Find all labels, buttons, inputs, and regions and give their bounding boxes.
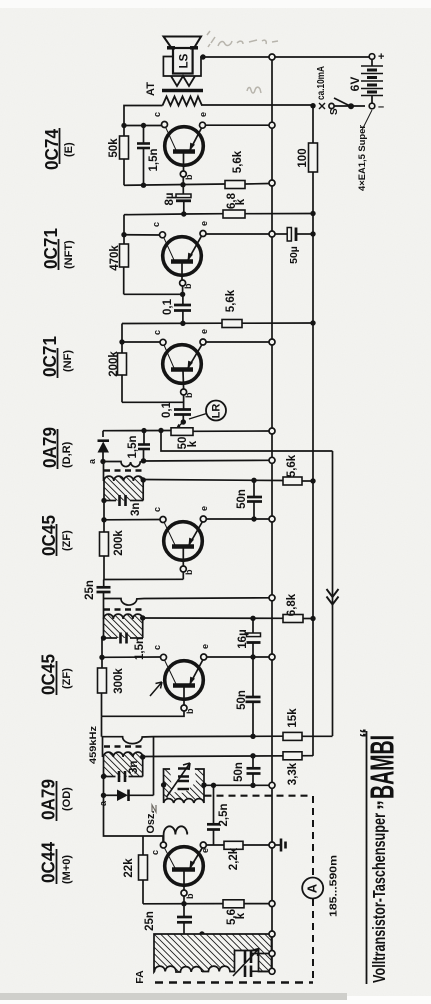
transistor OC45 ZF2 — [160, 516, 206, 579]
wire top line to 6,8k — [124, 214, 223, 215]
svg-text:25n: 25n — [84, 580, 96, 600]
junction T3 corners — [140, 754, 145, 759]
wire 200k bottom — [103, 556, 105, 580]
tuning gang capacitor plates — [245, 951, 251, 977]
svg-text:50n: 50n — [236, 489, 248, 509]
wire left rail ZF2 — [103, 501, 105, 533]
coupling winding T3 line — [102, 736, 284, 743]
coupling winding detector line — [103, 460, 269, 466]
node rail1 gang mid — [269, 951, 275, 957]
wire base line ZF2 — [104, 578, 183, 580]
junction 5,6k rail2 — [310, 320, 315, 325]
svg-text:c: c — [152, 507, 162, 512]
resistor 200k ZF2 — [100, 532, 109, 556]
svg-text:470k: 470k — [109, 245, 121, 271]
svg-text:3n: 3n — [130, 503, 142, 516]
node rail1 base network — [269, 901, 275, 907]
svg-text:b: b — [184, 569, 194, 575]
node rail1 gang bottom — [269, 968, 275, 974]
white window for trimmer symbol — [170, 760, 196, 793]
svg-text:1,5n: 1,5n — [127, 435, 139, 458]
svg-text:0A79: 0A79 — [39, 779, 59, 820]
svg-text:15k: 15k — [287, 708, 299, 728]
Osz box with bottom winding — [164, 769, 205, 803]
svg-text:200k: 200k — [113, 530, 125, 556]
node T2 line rail1 — [269, 595, 275, 601]
junction 50n-3 on 3,3k line — [250, 753, 255, 758]
node rail1 FA top — [269, 931, 275, 937]
svg-text:185...590m: 185...590m — [328, 855, 340, 917]
transistor OC45 ZF1 — [161, 654, 207, 711]
wire collector line ZF2 — [104, 519, 160, 521]
junction rail2 6,8k — [310, 616, 315, 621]
IF transformer T3 winding box — [104, 752, 143, 776]
junction 16u top — [250, 616, 255, 621]
potentiometer wiper arrow — [179, 422, 184, 426]
svg-text:e: e — [200, 848, 210, 853]
transistor OC44 — [160, 842, 206, 904]
svg-text:1,5n: 1,5n — [148, 148, 160, 171]
svg-text:200k: 200k — [108, 351, 120, 377]
svg-text:k: k — [235, 198, 247, 205]
svg-text:e: e — [198, 112, 208, 117]
svg-text:25n: 25n — [144, 911, 156, 931]
junction 2,5n top — [211, 783, 216, 788]
svg-text:8µ: 8µ — [164, 192, 176, 205]
resistor 50k — [120, 136, 129, 159]
capacitor 1,5n in T2 box — [121, 633, 127, 644]
svg-text:AT: AT — [145, 82, 157, 96]
svg-text:0,1: 0,1 — [161, 401, 173, 418]
svg-text:b: b — [185, 708, 195, 714]
scanner gray band bottom — [0, 993, 347, 1000]
IF transformer det winding box — [104, 476, 143, 500]
svg-text:50n: 50n — [233, 762, 245, 782]
transformer AT primary zigzag — [163, 97, 203, 106]
resistor 5,6k NF — [222, 320, 242, 328]
resistor 5,6k base OC74 — [225, 181, 245, 189]
junction 1,5n det top — [141, 428, 146, 433]
junction 1,5n det bottom — [141, 458, 146, 463]
wire diode to T3 coupling line — [153, 737, 155, 796]
svg-text:300k: 300k — [113, 668, 125, 694]
capacitor 50u electrolytic — [269, 228, 316, 264]
transistor OC74 — [162, 122, 270, 185]
wire AT primary left to left rail of stage — [124, 106, 163, 137]
svg-text:–: – — [378, 101, 384, 113]
wire emitter ZF2 to rail1 — [206, 518, 269, 520]
svg-text:4×EA1,5 Super: 4×EA1,5 Super — [357, 125, 368, 191]
resistor 100 — [297, 143, 318, 172]
junction diode anode — [100, 459, 105, 464]
svg-text:FA: FA — [134, 970, 146, 984]
wire box top to 5,6k rail — [143, 480, 283, 481]
svg-text:459kHz: 459kHz — [88, 726, 99, 764]
capacitor 1,5n — [137, 126, 150, 186]
ground symbol — [275, 839, 286, 852]
wire base line NFT — [124, 293, 183, 295]
capacitor 0,1 coupling NFT — [174, 294, 191, 323]
resistor 200k NF — [118, 353, 127, 375]
svg-text:e: e — [199, 329, 209, 334]
junction 50k top — [121, 123, 126, 128]
wire T3 top to 3,3k line — [143, 755, 313, 758]
svg-text:b: b — [184, 392, 194, 398]
junction diode line — [101, 793, 106, 798]
resistor 5,6k supply ZF2 — [283, 477, 302, 485]
node emitter NF rail1 — [269, 339, 275, 345]
svg-text:(ZF): (ZF) — [61, 668, 73, 689]
svg-text:(NFT): (NFT) — [63, 240, 75, 269]
svg-text:6V: 6V — [348, 77, 362, 92]
wire 200k bottom — [121, 375, 123, 402]
wire ZF1 base rail down — [101, 716, 103, 736]
resistor 470k — [120, 244, 129, 267]
junction 50n-3 top — [250, 734, 255, 739]
rail 1 (chassis rail) — [271, 57, 273, 971]
svg-text:50k: 50k — [108, 138, 120, 158]
wire emitter OC44 to 2,2k — [206, 844, 224, 846]
diode 0A79 D,R — [98, 431, 110, 462]
svg-text:ca.10mA: ca.10mA — [316, 66, 327, 100]
wire 6,8k to rail2 — [245, 213, 313, 215]
svg-text:k: k — [235, 912, 247, 919]
wire emitter ZF1 to rail1 — [207, 656, 270, 658]
wire Osz right to rail1 — [204, 784, 269, 786]
transformer AT core — [162, 89, 203, 93]
wire 15k to AGC line — [302, 735, 333, 737]
svg-text:b: b — [184, 174, 194, 180]
battery 6V — [361, 54, 383, 109]
svg-text:k: k — [187, 440, 199, 447]
wire collector line ZF1 — [102, 656, 160, 658]
switch S — [329, 98, 365, 109]
svg-text:50µ: 50µ — [288, 246, 300, 264]
node det line rail1 — [269, 457, 275, 463]
wire 470k bottom — [123, 267, 125, 294]
svg-text:5,6k: 5,6k — [232, 150, 244, 173]
wire collector line — [124, 125, 161, 127]
label LR circled — [189, 401, 226, 421]
resistor 6,8k — [223, 210, 245, 218]
speaker connection bracket — [163, 57, 201, 77]
tuning gang arrow — [233, 949, 259, 977]
svg-text:2,5n: 2,5n — [218, 803, 230, 826]
capacitor 25n OC44 — [177, 904, 192, 934]
junction T2 corners — [140, 615, 145, 620]
node pot rail1 — [269, 428, 275, 434]
svg-text:b: b — [185, 893, 195, 899]
junction base NFT — [180, 292, 185, 297]
junction 6,8k rail2 — [310, 211, 315, 216]
svg-text:BAMBI: BAMBI — [364, 735, 401, 799]
title Volltransistor-Taschensuper BAMBI — [357, 728, 401, 984]
capacitor 0,1 coupling NF — [174, 410, 191, 423]
AGC wire to vertical — [161, 431, 333, 452]
wire gang to rail nodes — [252, 953, 269, 955]
svg-text:16µ: 16µ — [237, 629, 249, 648]
resistor 15k — [283, 732, 302, 740]
junction collector ZF2 — [101, 517, 106, 522]
wire diode to winding — [103, 462, 105, 482]
current arrow marker — [319, 103, 325, 109]
capacitor 1,5n det — [138, 431, 150, 461]
junction speaker wire — [200, 54, 205, 59]
oscillator trimmer capacitor plates — [178, 769, 190, 790]
transistor OC71 NFT — [160, 231, 207, 295]
wire T2 line to box — [103, 599, 105, 620]
svg-text:c: c — [152, 330, 162, 335]
capacitor 50n ZF2 — [247, 480, 262, 519]
wire collector line NF — [122, 341, 160, 343]
svg-text:LS: LS — [179, 53, 191, 68]
potentiometer 50k body — [171, 428, 193, 436]
svg-text:“: “ — [357, 728, 379, 738]
junction FA top — [199, 931, 204, 936]
capacitor 2,5n — [207, 785, 220, 845]
potentiometer 50k wiper junction — [181, 419, 186, 424]
resistor 5,6k OC44 — [223, 900, 244, 908]
wire left rail to c line — [104, 795, 164, 836]
junction 0,1 bottom — [180, 321, 185, 326]
AGC vertical line with double arrow — [327, 451, 339, 736]
svg-text:(M+0): (M+0) — [61, 855, 73, 884]
circled A tuning indicator — [302, 878, 323, 899]
junction collector NF — [119, 339, 124, 344]
wire left rail NF — [121, 324, 123, 354]
svg-text:3,3k: 3,3k — [287, 762, 299, 785]
junction base OC44 — [181, 901, 186, 906]
svg-text:2,2k: 2,2k — [228, 847, 240, 870]
diode 0A79 OD — [104, 790, 154, 802]
svg-text:5,6k: 5,6k — [286, 454, 298, 477]
wire detector line — [103, 430, 171, 432]
svg-text:50n: 50n — [236, 690, 248, 710]
transistor OC71 NF — [160, 339, 206, 409]
svg-text:3n: 3n — [128, 761, 140, 774]
node emitter OC74 rail1 — [269, 122, 275, 128]
wire base line OC74 — [124, 184, 225, 185]
shield dashes T2 — [104, 608, 143, 611]
svg-text:0C45: 0C45 — [39, 654, 59, 695]
svg-text:0,1: 0,1 — [162, 298, 174, 315]
svg-text:5,6k: 5,6k — [225, 289, 237, 312]
svg-text:(OD): (OD) — [61, 787, 73, 811]
wire 5,6k to rail2 — [302, 480, 313, 482]
wire 5,6k to rail1 — [244, 903, 269, 905]
wire left rail ZF1 — [101, 638, 103, 668]
pencil mark N — [152, 805, 156, 812]
wire 2,2k to rail1 — [243, 844, 269, 846]
pencil scribble top — [207, 31, 278, 93]
IF transformer T2 winding box — [104, 614, 143, 638]
wire 6,8k to rail2 — [303, 618, 313, 620]
junction collector line — [121, 232, 126, 237]
wire base line ZF1 — [102, 711, 185, 716]
wire left rail NFT — [123, 215, 125, 244]
svg-text:22k: 22k — [123, 858, 135, 878]
svg-text:(D,R): (D,R) — [61, 441, 73, 468]
svg-text:A: A — [305, 883, 320, 893]
junction switch-rail2 — [310, 103, 315, 108]
svg-text:c: c — [152, 645, 162, 650]
junction 50n top — [251, 478, 256, 483]
resistor 22k — [123, 836, 148, 904]
junction Osz right edge — [201, 782, 206, 787]
FA hatched block — [154, 934, 272, 972]
capacitor 25n ZF2 — [97, 580, 111, 599]
wire pot right to rail1 — [193, 430, 269, 432]
oscillator feedback winding — [164, 826, 188, 843]
junction 1,5n top — [141, 123, 146, 128]
dashed gang right edge — [312, 796, 314, 877]
junction 50n bottom — [251, 516, 256, 521]
wire base line OC44 — [143, 903, 223, 905]
junction base OC74 — [180, 182, 185, 187]
svg-text:(NF): (NF) — [62, 350, 74, 372]
battery callout line — [362, 110, 372, 130]
dashed shield under FA / gang bottom — [155, 981, 313, 983]
capacitor 3n in T3 box — [119, 771, 125, 782]
resistor 300k — [98, 668, 107, 693]
junction AGC branch — [158, 428, 163, 433]
node rail1 osc — [269, 782, 275, 788]
junction rail2 5,6k — [310, 478, 315, 483]
svg-text:„: „ — [363, 800, 385, 810]
svg-text:+: + — [378, 51, 384, 63]
svg-text:e: e — [200, 644, 210, 649]
wire emitter NF to rail1 — [206, 341, 269, 343]
node rail1 top — [269, 54, 275, 60]
junction 8u bottom — [181, 211, 186, 216]
shield dashes T3 — [104, 745, 144, 748]
svg-text:Osz.: Osz. — [145, 810, 157, 833]
junction 16u bottom — [250, 654, 255, 659]
svg-text:e: e — [199, 221, 209, 226]
node 5,6k on rail1 — [269, 180, 275, 186]
svg-text:6,8k: 6,8k — [286, 593, 298, 616]
junction collector ZF1 — [99, 655, 104, 660]
AT primary wire to switch junction — [202, 104, 313, 106]
resistor 3,3k — [283, 752, 302, 760]
top wire speaker to battery + — [201, 56, 369, 58]
wire c line drop — [162, 836, 164, 842]
junction Osz left edge — [161, 782, 166, 787]
svg-text:b: b — [183, 283, 193, 289]
loudspeaker LS — [164, 37, 202, 74]
svg-text:(E): (E) — [63, 142, 75, 157]
capacitor 16u electrolytic — [247, 618, 261, 657]
wire T3 bottom to diode line — [103, 777, 105, 796]
capacitor 50n ZF1 — [246, 657, 261, 736]
wire T3 line to box — [102, 737, 104, 757]
AGC arrow at ZF1 — [150, 682, 162, 696]
svg-text:e: e — [199, 506, 209, 511]
resistor 2,2k — [224, 841, 243, 849]
junction 50n-3 bottom — [250, 783, 255, 788]
svg-text:S: S — [329, 108, 340, 115]
svg-text:c: c — [151, 222, 161, 227]
junction 1,5n bottom — [141, 183, 146, 188]
wire 5,6k to rail2 — [242, 322, 313, 324]
junction box corners — [141, 477, 146, 482]
wire base line NF — [122, 401, 184, 403]
shield dashes — [104, 469, 144, 472]
transformer AT secondary zigzag — [171, 76, 195, 86]
svg-text:0C44: 0C44 — [39, 842, 59, 883]
capacitor 3n in box — [120, 495, 126, 506]
svg-text:(ZF): (ZF) — [61, 530, 73, 551]
svg-text:100: 100 — [297, 148, 309, 167]
node rail1 emitter OC44 / ground — [269, 842, 275, 848]
resistor 6,8k supply ZF1 — [283, 615, 303, 623]
svg-text:Volltransistor-Taschensuper: Volltransistor-Taschensuper — [369, 813, 389, 983]
capacitor 8u electrolytic coupling — [176, 185, 191, 214]
wire T2 top to 6,8k — [143, 617, 283, 619]
wire emitter NFT to rail1 — [206, 233, 269, 235]
svg-text:LR: LR — [210, 404, 222, 419]
node emitter ZF2 rail1 — [269, 516, 275, 522]
rail 2 (switched supply rail) — [312, 106, 314, 755]
wire 300k bottom — [101, 693, 103, 716]
svg-text:c: c — [152, 112, 162, 117]
oscillator trimmer arrow — [167, 763, 191, 797]
capacitor 50n-3 — [247, 756, 261, 786]
node emitter ZF1 rail1 — [269, 654, 275, 660]
wire collector line NFT — [124, 234, 160, 236]
coupling winding T2 line to rail1 — [104, 598, 270, 605]
wire 50k bottom — [123, 159, 125, 185]
svg-text:c: c — [150, 850, 160, 855]
wire base supply line NF — [122, 322, 222, 324]
mechanical dashed link Osz to gang — [205, 795, 312, 797]
